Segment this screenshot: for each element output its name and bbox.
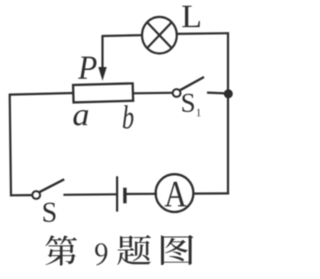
label b: [123, 105, 133, 128]
label a: [73, 110, 88, 126]
rheostat body: [73, 83, 133, 102]
wire left vertical: [10, 94, 11, 197]
switch S pivot circle: [32, 191, 40, 199]
switch S1 pivot circle: [173, 89, 181, 97]
wire bottom-left to switch S: [10, 194, 32, 196]
wire rheostat to left edge: [10, 93, 74, 95]
lamp L circle: [142, 17, 177, 54]
switch S lever: [39, 179, 64, 192]
battery long plate: [116, 176, 118, 211]
caption character 9: [95, 243, 107, 265]
wire rheostat to S1: [132, 92, 172, 95]
wire ammeter to bottom-right corner: [193, 192, 230, 194]
wire switch S to battery: [63, 193, 116, 196]
label S1 letter S: [182, 94, 193, 112]
ammeter letter A: [165, 182, 187, 207]
lamp cross diagonal 1: [147, 22, 172, 48]
label P: [78, 57, 97, 79]
label L: [182, 6, 200, 27]
slider arrowhead: [98, 67, 106, 81]
wire from slider corner to lamp: [103, 34, 142, 37]
wire lamp to top-right corner: [177, 32, 230, 35]
caption character 第: [45, 235, 77, 265]
wire S1 to junction: [207, 91, 226, 94]
switch S1 lever: [180, 77, 204, 90]
junction node dot: [224, 89, 233, 98]
wire right vertical: [227, 33, 229, 195]
label S1 subscript 1: [197, 109, 201, 116]
wire battery to ammeter: [126, 193, 157, 195]
caption character 图: [161, 235, 193, 265]
lamp cross diagonal 2: [147, 22, 172, 48]
label S: [43, 203, 55, 222]
battery short plate: [123, 188, 126, 204]
slider drop wire: [101, 35, 103, 70]
caption character 题: [117, 235, 151, 265]
ammeter circle: [156, 174, 194, 212]
